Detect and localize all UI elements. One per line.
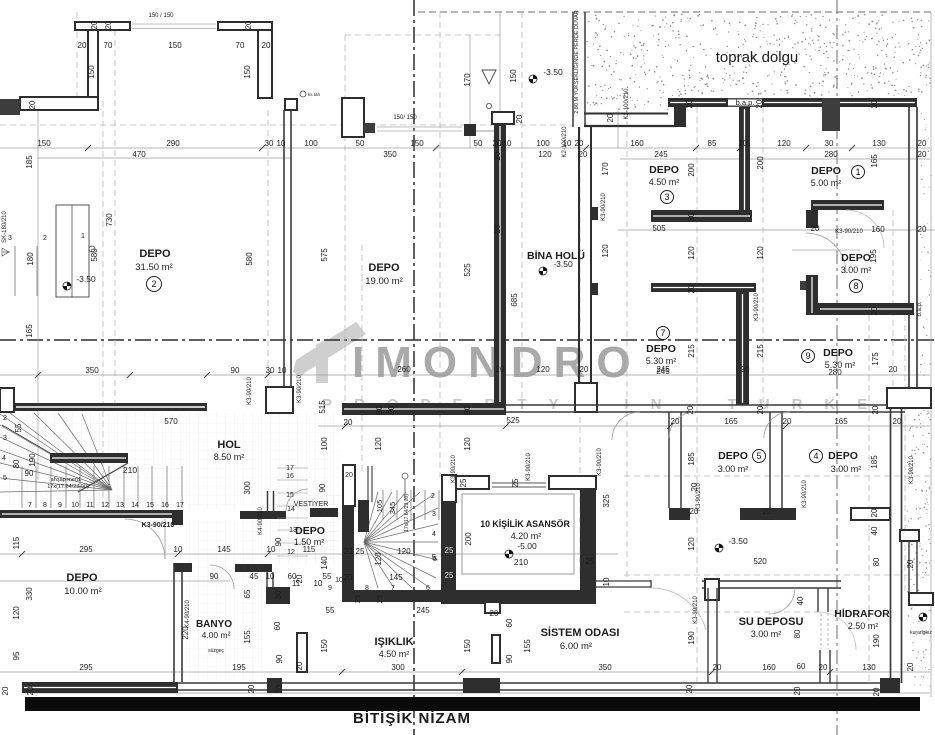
svg-text:20: 20 — [889, 365, 898, 374]
svg-text:K3-90/210: K3-90/210 — [601, 193, 607, 221]
wall foot DEPO5/DEPO4 — [740, 508, 796, 520]
dimension line y=158 — [38, 157, 290, 159]
svg-text:25: 25 — [445, 546, 454, 555]
svg-text:165: 165 — [870, 154, 879, 168]
svg-text:3: 3 — [8, 235, 12, 242]
svg-text:170: 170 — [463, 73, 472, 87]
circle number 1 — [852, 166, 865, 179]
door opening lines light shaft 150/150 — [132, 23, 216, 25]
svg-text:130: 130 — [872, 139, 886, 148]
svg-text:80: 80 — [793, 629, 802, 638]
svg-text:280: 280 — [828, 368, 842, 377]
svg-text:120: 120 — [601, 244, 610, 258]
svg-text:60: 60 — [273, 621, 282, 630]
svg-text:16: 16 — [161, 502, 169, 509]
svg-text:25: 25 — [375, 595, 384, 603]
svg-text:20: 20 — [345, 472, 353, 479]
wall right of BINA HOLU x583 upper — [578, 127, 580, 385]
door arc DEPO7 bottom — [612, 412, 640, 440]
svg-text:40: 40 — [870, 526, 879, 535]
grid dashed vertical x=580 — [579, 127, 581, 578]
svg-text:K3-90/210: K3-90/210 — [451, 455, 457, 483]
svg-text:7: 7 — [391, 585, 395, 592]
svg-text:210: 210 — [514, 557, 528, 567]
svg-text:10: 10 — [278, 366, 287, 375]
svg-text:245: 245 — [416, 606, 430, 615]
svg-text:6.00 m²: 6.00 m² — [560, 641, 592, 652]
svg-text:20: 20 — [763, 507, 772, 516]
svg-text:20: 20 — [496, 365, 505, 374]
svg-text:9: 9 — [805, 351, 810, 361]
wall block bottom right — [880, 678, 900, 693]
svg-text:100: 100 — [320, 437, 329, 451]
svg-text:K4-90/210: K4-90/210 — [185, 600, 191, 628]
svg-text:25: 25 — [586, 557, 595, 566]
column K under divider — [266, 387, 293, 413]
svg-text:3.00 m²: 3.00 m² — [841, 265, 872, 275]
wall right lower vertical — [890, 408, 892, 683]
door arc DEPO8 — [806, 233, 846, 273]
perimeter wall right vertical — [908, 107, 910, 390]
svg-text:20: 20 — [893, 417, 902, 426]
dimension line x=38 — [37, 101, 39, 480]
door arc HIDRAFOR — [818, 612, 856, 650]
door opening dashes DEPO2 right — [792, 249, 860, 251]
svg-text:520: 520 — [753, 557, 767, 566]
svg-text:K3-90/210: K3-90/210 — [754, 293, 760, 321]
svg-text:145: 145 — [389, 573, 403, 582]
svg-text:6: 6 — [426, 585, 430, 592]
svg-text:25: 25 — [445, 571, 454, 580]
b.a.p. gap edge lines — [728, 98, 762, 100]
svg-text:BİNA HOLÜ: BİNA HOLÜ — [527, 249, 585, 262]
wall sistem odasi left — [492, 635, 500, 663]
svg-text:20: 20 — [870, 99, 879, 108]
wall elevator right — [580, 489, 596, 604]
stair 1 fan treads — [0, 413, 112, 492]
svg-text:95: 95 — [12, 651, 21, 660]
retaining wall toprak left boundary — [572, 12, 574, 127]
wall step at HOL right — [172, 510, 183, 525]
svg-text:toprak dolgu: toprak dolgu — [716, 49, 799, 66]
svg-text:HOL: HOL — [217, 439, 241, 451]
svg-text:b.a.p.: b.a.p. — [917, 301, 923, 316]
circle number 3 — [661, 191, 674, 204]
svg-text:90: 90 — [318, 483, 327, 492]
wall foot DEPO5 left — [669, 508, 690, 520]
circle number 4 — [810, 450, 823, 463]
toprak dolgu fill area (random stipple) — [586, 13, 930, 110]
svg-text:150: 150 — [509, 69, 518, 83]
svg-text:9: 9 — [328, 585, 332, 592]
svg-text:55: 55 — [326, 606, 335, 615]
door arc SISTEM ODASI — [650, 588, 706, 630]
svg-text:150: 150 — [463, 639, 472, 653]
svg-text:SİSTEM ODASI: SİSTEM ODASI — [541, 626, 620, 639]
svg-text:50: 50 — [474, 139, 483, 148]
svg-text:2: 2 — [43, 235, 47, 242]
svg-text:80: 80 — [12, 459, 21, 468]
grid dashed vertical x=869 — [868, 315, 870, 682]
floor tile texture VESTIYER — [275, 491, 341, 564]
svg-text:20: 20 — [90, 20, 99, 29]
svg-text:20: 20 — [671, 417, 680, 426]
svg-text:ks tah: ks tah — [308, 92, 321, 97]
svg-text:5.00 m²: 5.00 m² — [811, 178, 842, 188]
svg-text:70: 70 — [104, 41, 113, 50]
svg-text:20: 20 — [793, 686, 802, 695]
svg-text:185: 185 — [687, 452, 696, 466]
wall above DEPO7 — [651, 283, 756, 292]
wall DEPO10 right vertical — [173, 563, 175, 682]
svg-text:DEPO: DEPO — [718, 450, 748, 462]
stair 2 landing dark edge — [358, 500, 369, 532]
svg-text:90: 90 — [275, 654, 284, 663]
svg-text:SU DEPOSU: SU DEPOSU — [739, 616, 804, 628]
elevator cab inner outline — [462, 494, 574, 574]
svg-text:20: 20 — [463, 405, 472, 414]
svg-text:120: 120 — [687, 246, 696, 260]
wall elevator top-left block — [456, 476, 489, 489]
svg-text:10: 10 — [314, 579, 323, 588]
wall DEPO8 left vertical — [806, 275, 818, 315]
svg-text:350: 350 — [85, 366, 99, 375]
wall step up at x675 — [674, 98, 686, 127]
svg-text:120: 120 — [536, 365, 550, 374]
grid dashed horizontal y=612 — [624, 611, 818, 613]
svg-text:195: 195 — [232, 663, 246, 672]
svg-text:DEPO: DEPO — [828, 450, 858, 462]
svg-text:120: 120 — [777, 139, 791, 148]
svg-text:120: 120 — [687, 537, 696, 551]
svg-text:DEPO: DEPO — [66, 572, 98, 584]
svg-text:90: 90 — [231, 366, 240, 375]
svg-text:20: 20 — [295, 661, 304, 670]
wall elevator top-right block — [549, 476, 596, 489]
svg-text:580: 580 — [90, 248, 99, 262]
svg-text:7: 7 — [28, 502, 32, 509]
svg-text:16: 16 — [286, 473, 294, 480]
svg-text:-5.00: -5.00 — [517, 541, 537, 551]
svg-text:120: 120 — [463, 437, 472, 451]
svg-text:12: 12 — [287, 549, 295, 556]
svg-text:20: 20 — [493, 224, 502, 233]
svg-text:350: 350 — [598, 663, 612, 672]
wall DEPO1 bottom horizontal — [811, 200, 884, 210]
svg-text:20: 20 — [244, 20, 253, 29]
dimension line x=470 — [469, 35, 471, 148]
svg-text:470: 470 — [132, 150, 146, 159]
svg-text:20: 20 — [493, 151, 502, 160]
wall bottom thin band — [178, 682, 890, 684]
stair 1 tread numbers 7-17 — [28, 502, 184, 509]
svg-text:245: 245 — [656, 365, 670, 374]
svg-text:20: 20 — [819, 663, 828, 672]
svg-text:20: 20 — [713, 663, 722, 672]
svg-text:9: 9 — [58, 502, 62, 509]
svg-text:20: 20 — [579, 150, 588, 159]
svg-text:325: 325 — [602, 494, 611, 508]
wall su deposu top horizontal — [702, 580, 841, 582]
svg-text:20: 20 — [1, 686, 10, 695]
wall elevator left upper (outlined) — [442, 475, 456, 502]
svg-text:150: 150 — [410, 139, 424, 148]
wall right vertical y541-593 — [908, 541, 910, 593]
svg-text:3: 3 — [664, 192, 669, 202]
svg-text:-3.50: -3.50 — [76, 274, 96, 284]
axis dash-dot vertical B — [413, 0, 415, 735]
svg-text:120: 120 — [374, 437, 383, 451]
svg-text:K3-90/210: K3-90/210 — [526, 453, 532, 481]
dimension line y=672 — [0, 671, 930, 673]
level symbol elevator — [505, 550, 513, 558]
wall DEPO3-DEPO1 divider — [739, 107, 750, 222]
svg-text:10: 10 — [266, 572, 275, 581]
wall DEPO8 nub — [800, 281, 806, 290]
wall DEPO7-DEPO9 divider — [736, 292, 749, 405]
wall elevator left — [441, 502, 456, 604]
svg-text:330: 330 — [25, 587, 34, 601]
svg-text:30: 30 — [265, 139, 274, 148]
circle number 7 — [657, 327, 670, 340]
door arc DEPO5 — [669, 412, 695, 438]
wall piece right of banyo — [297, 633, 307, 672]
watermark logo swoosh — [293, 322, 366, 377]
svg-text:20: 20 — [78, 41, 87, 50]
floor tile texture corridor — [184, 519, 340, 564]
svg-text:20: 20 — [687, 284, 696, 293]
svg-text:55: 55 — [323, 572, 332, 581]
svg-text:10: 10 — [277, 139, 286, 148]
svg-text:25: 25 — [459, 478, 468, 487]
dimension line y=159 — [620, 158, 930, 160]
svg-text:145: 145 — [217, 545, 231, 554]
svg-text:17: 17 — [286, 465, 294, 472]
svg-text:120: 120 — [756, 246, 765, 260]
stair 1 landing dark edge — [50, 453, 128, 463]
svg-text:17x(17.64/23.00): 17x(17.64/23.00) — [404, 494, 410, 532]
svg-text:4.20 m²: 4.20 m² — [511, 531, 542, 541]
svg-text:290: 290 — [166, 139, 180, 148]
svg-text:20: 20 — [26, 686, 35, 695]
svg-text:20: 20 — [685, 99, 694, 108]
svg-text:120: 120 — [397, 547, 411, 556]
door arc HOL — [125, 519, 165, 559]
svg-text:120: 120 — [12, 606, 21, 620]
svg-text:105: 105 — [375, 500, 384, 513]
wall step below elevator — [485, 602, 500, 613]
perimeter wall top right (left of b.a.p.) — [668, 98, 728, 107]
grid dashed vertical x=522 — [521, 12, 523, 403]
wall stair2 left lower — [342, 506, 354, 593]
wall corridor left (570) — [14, 403, 207, 411]
svg-text:K2-100/210: K2-100/210 — [562, 126, 568, 158]
svg-text:25: 25 — [511, 478, 520, 487]
svg-text:20: 20 — [741, 365, 750, 374]
wall piece left end corridor — [0, 388, 14, 412]
level symbol top center — [529, 75, 537, 83]
svg-text:20: 20 — [685, 684, 694, 693]
wall su deposu left vertical — [707, 588, 709, 683]
svg-text:DEPO: DEPO — [368, 262, 400, 274]
svg-text:2: 2 — [431, 493, 435, 500]
svg-text:11: 11 — [86, 502, 93, 509]
svg-text:155: 155 — [243, 630, 252, 644]
svg-text:8: 8 — [365, 585, 369, 592]
svg-text:4.00 m²: 4.00 m² — [202, 630, 231, 640]
svg-text:K3-90/210: K3-90/210 — [835, 229, 863, 235]
svg-text:190: 190 — [28, 453, 37, 467]
svg-text:30: 30 — [274, 590, 283, 599]
svg-text:20: 20 — [490, 609, 499, 618]
grid dashed line top — [418, 11, 931, 13]
grid dashed horizontal y=125 — [0, 124, 573, 126]
svg-text:280: 280 — [824, 150, 838, 159]
SK shaft divider — [71, 205, 73, 297]
grid dashed vertical x=268 — [267, 110, 269, 385]
grid dashed vertical x=627 — [626, 111, 628, 578]
svg-text:20: 20 — [375, 405, 384, 414]
svg-text:525: 525 — [506, 416, 520, 425]
grid dashed vertical x=697 — [696, 107, 698, 682]
dimension line y=230 — [618, 229, 935, 231]
svg-text:K3-90/210: K3-90/210 — [142, 522, 175, 529]
svg-text:20: 20 — [275, 684, 284, 693]
svg-text:300: 300 — [243, 481, 252, 495]
wall foot DEPO4 right — [851, 508, 890, 520]
stair 1 top numbers 3 2 1 — [8, 233, 85, 242]
svg-text:2: 2 — [151, 279, 156, 289]
svg-text:185: 185 — [25, 155, 34, 169]
svg-text:50: 50 — [356, 139, 365, 148]
svg-text:345: 345 — [388, 502, 397, 515]
svg-text:20: 20 — [918, 225, 927, 234]
svg-text:ahşap merd.: ahşap merd. — [51, 477, 82, 483]
level symbol kuranglez — [919, 613, 927, 621]
door opening dashes top center — [377, 126, 462, 128]
svg-text:165: 165 — [724, 417, 738, 426]
level symbol su deposu area — [715, 544, 723, 552]
pier right wall offset — [887, 388, 931, 408]
grid dashed vertical x=893 — [892, 210, 894, 388]
svg-text:25: 25 — [356, 547, 365, 556]
wall DEPO2/DEPO19 divider — [283, 110, 285, 387]
svg-text:685: 685 — [510, 293, 519, 307]
stair 2 fan treads — [364, 492, 438, 588]
grid dashed horizontal y=575 — [624, 574, 930, 576]
svg-text:2.50 m²: 2.50 m² — [848, 621, 879, 631]
svg-text:90: 90 — [25, 469, 34, 478]
svg-text:55: 55 — [14, 423, 23, 432]
svg-text:215: 215 — [756, 344, 765, 358]
dimension line x=931 — [930, 12, 932, 697]
svg-text:3.00 m²: 3.00 m² — [718, 464, 749, 474]
wall above HOL — [0, 510, 178, 518]
svg-text:BİTİŞİK NİZAM: BİTİŞİK NİZAM — [353, 710, 471, 727]
svg-text:210: 210 — [123, 465, 137, 475]
svg-text:20: 20 — [872, 687, 881, 696]
svg-text:K2-100/210: K2-100/210 — [624, 88, 630, 120]
svg-text:20: 20 — [906, 559, 915, 568]
svg-text:DEPO: DEPO — [811, 165, 841, 177]
svg-text:1: 1 — [81, 233, 85, 240]
level symbol BINA HOLU — [539, 267, 547, 275]
grid dashed horizontal y=476 — [624, 475, 930, 477]
svg-text:20: 20 — [580, 365, 589, 374]
small block left of column — [464, 124, 476, 136]
wall banyo right vertical — [266, 572, 268, 600]
floor tile texture BANYO — [184, 564, 266, 681]
svg-text:DEPO: DEPO — [823, 347, 853, 359]
svg-text:DEPO: DEPO — [841, 252, 871, 264]
svg-text:K3-90/210: K3-90/210 — [696, 483, 702, 511]
pier below x583 wall — [575, 383, 597, 412]
svg-text:30: 30 — [266, 366, 275, 375]
svg-text:BANYO: BANYO — [196, 619, 232, 630]
SK entry step lines — [14, 246, 16, 296]
svg-text:-3.50: -3.50 — [543, 67, 563, 77]
wall stair2 bottom — [342, 590, 456, 602]
svg-text:180: 180 — [26, 252, 35, 266]
svg-text:4: 4 — [813, 451, 818, 461]
grid dashed horizontal y=35 — [345, 34, 500, 36]
svg-text:295: 295 — [79, 545, 93, 554]
wall bottom DEPO10 thick — [22, 682, 178, 693]
svg-text:575: 575 — [320, 248, 329, 262]
svg-text:160: 160 — [762, 663, 776, 672]
stair 2 upper treads vertical — [383, 490, 439, 520]
svg-text:25: 25 — [353, 595, 362, 603]
grid dashed vertical x=905 — [904, 315, 906, 592]
column K2 left — [342, 98, 364, 137]
svg-text:K3-90/210: K3-90/210 — [802, 480, 808, 508]
dimension line y=581 — [0, 580, 230, 582]
svg-text:160: 160 — [871, 225, 885, 234]
wall exterior top-left horizontal — [20, 97, 98, 110]
svg-text:20: 20 — [104, 20, 113, 29]
grid dashed vertical x=103 — [102, 101, 104, 510]
door jamb x591 y283 — [591, 283, 598, 295]
wall corridor thick center — [342, 403, 506, 415]
svg-text:K4-90/210: K4-90/210 — [258, 507, 264, 535]
block camasir — [266, 587, 290, 604]
svg-text:170: 170 — [601, 162, 610, 176]
grid dashed vertical x=362 — [361, 245, 363, 472]
svg-text:30: 30 — [825, 139, 834, 148]
wall su deposu right vertical lower — [819, 650, 821, 683]
wall stub right of shaft — [285, 99, 297, 110]
svg-text:155: 155 — [523, 639, 532, 653]
wall thin piece x367 above stair2 — [367, 466, 369, 502]
circle number 8 — [850, 280, 863, 293]
SK shaft circle symbol — [89, 246, 95, 252]
svg-text:185: 185 — [870, 455, 879, 469]
wall elevator bottom — [441, 590, 596, 604]
svg-text:K3-90/210: K3-90/210 — [909, 456, 915, 484]
svg-text:150/ 150: 150/ 150 — [393, 115, 417, 121]
dimension line y=426 — [318, 425, 930, 427]
kapi lines near column — [476, 130, 494, 132]
svg-text:20: 20 — [295, 574, 304, 583]
svg-text:60: 60 — [505, 618, 514, 627]
svg-text:20: 20 — [262, 41, 271, 50]
elevator door marks — [492, 482, 546, 484]
svg-text:5: 5 — [3, 475, 7, 482]
svg-text:4: 4 — [2, 455, 6, 462]
dimension line x=618 — [617, 111, 619, 148]
wall step right — [900, 530, 919, 541]
svg-text:20: 20 — [739, 139, 748, 148]
